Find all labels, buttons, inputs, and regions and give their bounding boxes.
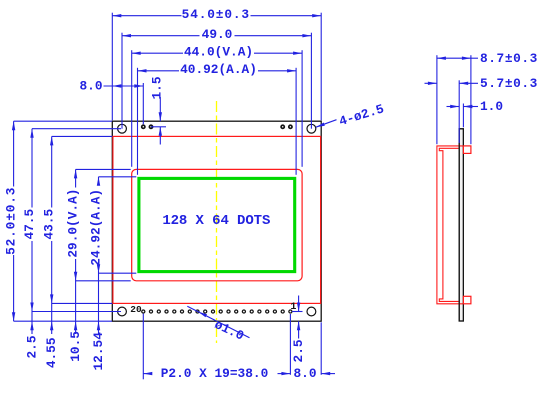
svg-text:4.55: 4.55 xyxy=(44,337,59,368)
svg-text:47.5: 47.5 xyxy=(22,209,37,240)
dimension 49.0 (top, hole centers) xyxy=(121,33,123,129)
viewing area V.A (red rounded rect) xyxy=(132,169,302,280)
svg-text:52.0±0.3: 52.0±0.3 xyxy=(4,187,19,255)
svg-text:54.0±0.3: 54.0±0.3 xyxy=(182,7,250,22)
svg-text:12.54: 12.54 xyxy=(91,332,106,371)
svg-text:4-ø2.5: 4-ø2.5 xyxy=(337,101,386,129)
dimension 5.7±0.3 (side view) xyxy=(458,80,460,143)
dimension 2.5 (right, pin row to bottom edge) xyxy=(292,311,303,313)
PCB outline (front view) xyxy=(112,121,321,321)
side view: top solder tab (red square) xyxy=(463,146,471,154)
dimension 29.0(V.A) / 10.5 column (left) xyxy=(76,168,131,170)
svg-text:20: 20 xyxy=(130,304,142,315)
dimension 24.92(A.A) / 12.54 column (left) xyxy=(99,176,137,178)
svg-text:44.0(V.A): 44.0(V.A) xyxy=(184,44,253,59)
dimension 47.5 / 2.5 column (left) xyxy=(32,128,121,130)
mounting hole top-right xyxy=(307,124,316,133)
mounting hole bottom-left xyxy=(118,307,127,316)
svg-text:43.5: 43.5 xyxy=(42,209,57,240)
dimension 44.0(V.A) (top) xyxy=(131,50,133,167)
svg-text:8.0: 8.0 xyxy=(79,79,102,94)
leader and label ø1.0 (pin hole diameter) xyxy=(187,306,249,338)
yellow vertical centerline xyxy=(216,101,218,343)
svg-text:1.5: 1.5 xyxy=(150,76,165,99)
svg-text:5.7±0.3: 5.7±0.3 xyxy=(480,76,538,91)
dimension 43.5 / 4.55 column (left) xyxy=(52,135,113,137)
top small holes (pins 20,19 and 2,1 positions) xyxy=(142,125,145,128)
dimension 8.7±0.3 (side view) xyxy=(436,55,438,144)
svg-text:8.7±0.3: 8.7±0.3 xyxy=(480,51,538,66)
mounting hole top-left xyxy=(118,124,127,133)
dimension P2.0 X 19=38.0 (bottom) xyxy=(142,314,144,380)
bottom pin hole row (20 holes) xyxy=(142,310,145,313)
svg-text:1.0: 1.0 xyxy=(480,99,503,114)
side view: bottom solder tab (red square) xyxy=(463,296,471,304)
dimension 54.0±0.3 (top) xyxy=(111,13,113,121)
svg-text:P2.0 X 19=38.0: P2.0 X 19=38.0 xyxy=(161,366,269,381)
dimension 1.5 (top edge to small hole row) xyxy=(159,97,161,121)
svg-text:10.5: 10.5 xyxy=(68,331,83,362)
dimension 52.0±0.3 (left) xyxy=(14,120,112,122)
dimension 40.92(A.A) (top) xyxy=(137,68,139,175)
dimension 1.0 (side view, PCB thickness) xyxy=(462,104,464,128)
svg-text:40.92(A.A): 40.92(A.A) xyxy=(180,62,257,77)
svg-text:2.5: 2.5 xyxy=(291,339,306,362)
svg-text:2.5: 2.5 xyxy=(25,335,40,358)
LCD glass outline (red) xyxy=(113,136,321,303)
svg-text:8.0: 8.0 xyxy=(293,366,316,381)
active area A.A (green rect) xyxy=(139,178,295,271)
svg-text:128 X 64 DOTS: 128 X 64 DOTS xyxy=(162,213,270,229)
side view: PCB board outline restroke xyxy=(459,129,463,321)
svg-text:29.0(V.A): 29.0(V.A) xyxy=(66,189,81,258)
side view: LCD bezel frame (red C-profile) xyxy=(437,146,463,304)
mounting hole bottom-right xyxy=(307,307,316,316)
svg-text:24.92(A.A): 24.92(A.A) xyxy=(89,189,104,266)
svg-text:49.0: 49.0 xyxy=(202,27,233,42)
leader and label 4-ø2.5 (mounting holes) xyxy=(316,120,337,128)
side view: PCB board (vertical bar) xyxy=(459,129,463,321)
